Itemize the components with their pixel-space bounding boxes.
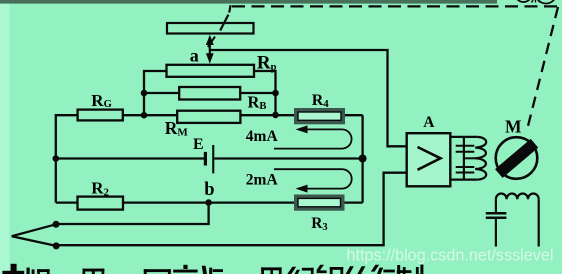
transformer tick 4 bbox=[456, 172, 475, 174]
wire inductor right down bbox=[538, 199, 540, 246]
resistor R4 inner body bbox=[298, 112, 341, 120]
resistor R3 inner body bbox=[298, 198, 341, 206]
wire R3 right lead bbox=[345, 201, 363, 203]
transformer winding lobes bbox=[475, 137, 486, 180]
right rail vertical R4-R3 bbox=[361, 115, 363, 202]
bottom cropped title glyph 量 bbox=[83, 269, 105, 274]
wiper arrowhead down bbox=[206, 53, 214, 63]
amplifier symbol > bbox=[418, 147, 441, 170]
node dot right rail upper bbox=[272, 90, 279, 97]
wire b branch down-left bbox=[56, 203, 209, 224]
node dot right rail lower bbox=[272, 112, 279, 119]
resistor RB bbox=[179, 87, 240, 100]
node dot mid right rail bbox=[359, 155, 367, 163]
cut-off logo circle 2 (top right) bbox=[536, 0, 557, 4]
top dark bar bbox=[0, 0, 497, 4]
bottom cropped title glyph 绘 bbox=[371, 265, 395, 274]
top callout box (wiper track) bbox=[167, 23, 254, 34]
cut-off logo circle 1 (top right) bbox=[515, 0, 532, 2]
resistor RM bbox=[177, 111, 240, 123]
bottom cropped title glyph 纪 bbox=[287, 267, 313, 274]
svg-text:4mA: 4mA bbox=[246, 128, 279, 145]
wire E row left bbox=[56, 157, 204, 159]
switch arrow upper blade bbox=[12, 224, 56, 236]
node dot E row bbox=[53, 155, 60, 162]
callout dashed diagonal to motor bbox=[527, 7, 559, 132]
wire RB left link bbox=[144, 92, 179, 94]
node dot switch top bbox=[53, 221, 60, 228]
bottom cropped title glyph 制 bbox=[397, 265, 424, 274]
transformer top lead bbox=[450, 136, 477, 138]
wire R4 right lead bbox=[345, 114, 363, 116]
transformer spine bbox=[463, 137, 465, 180]
wire RM row bbox=[123, 114, 177, 116]
wire R2 row bbox=[56, 201, 78, 203]
node dot switch bottom bbox=[53, 242, 60, 249]
wire wiper to amplifier input 1 bbox=[211, 50, 408, 146]
wire Rp left to left rail bbox=[144, 71, 167, 115]
resistor RG bbox=[78, 110, 123, 121]
resistor R3 outer frame bbox=[294, 195, 345, 211]
wire E row right bbox=[214, 157, 362, 159]
transformer tick 3 bbox=[456, 166, 475, 168]
svg-text:b: b bbox=[204, 180, 214, 200]
switch arrow lower blade bbox=[12, 236, 57, 246]
wire RM right to R4 bbox=[240, 114, 294, 116]
cut-off logo rays bbox=[532, 0, 540, 3]
svg-text:https://blog.csdn.net/ssslevel: https://blog.csdn.net/ssslevel bbox=[347, 246, 554, 264]
resistor Rp bbox=[167, 65, 255, 77]
bottom cropped title glyph 用 bbox=[261, 267, 281, 274]
transformer tick 1 bbox=[456, 145, 475, 147]
current loop arrow 4mA bbox=[274, 129, 352, 148]
wire capacitor down bbox=[495, 218, 497, 247]
bottom cropped title glyph 文 bbox=[173, 265, 197, 273]
wire bottom rail to amplifier input 2 bbox=[56, 173, 407, 246]
current loop arrow 2mA bbox=[274, 169, 352, 188]
resistor R4 outer frame bbox=[294, 108, 345, 124]
transformer bottom lead bbox=[450, 179, 477, 181]
motor M circle bbox=[496, 137, 538, 179]
capacitor C top plate bbox=[486, 212, 507, 215]
wire RB right link bbox=[240, 92, 275, 94]
bottom cropped title glyph 阻 bbox=[27, 268, 50, 274]
svg-text:E: E bbox=[193, 136, 204, 153]
wire Rp right to right rail bbox=[254, 71, 276, 115]
node dot left rail upper bbox=[141, 90, 148, 97]
wiper double arrow shaft bbox=[209, 41, 211, 57]
amplifier U1 box bbox=[407, 133, 451, 186]
capacitor C bottom plate bbox=[486, 216, 507, 219]
node b dot bbox=[205, 199, 212, 206]
wire RG left and left vertical rail bbox=[56, 115, 78, 202]
callout dashed horizontal line bbox=[232, 5, 557, 7]
battery E negative plate bbox=[204, 152, 207, 166]
transformer tick 2 bbox=[456, 151, 475, 153]
svg-text:2mA: 2mA bbox=[246, 171, 279, 188]
bottom cropped title glyph 图 bbox=[144, 269, 171, 274]
wiper arrowhead up bbox=[206, 35, 214, 45]
bottom cropped title glyph 值 bbox=[202, 266, 223, 274]
svg-text:a: a bbox=[190, 45, 199, 65]
wire R2 to R3 row bbox=[123, 201, 295, 203]
callout solid diagonal through top box bbox=[220, 15, 228, 31]
transformer middle tap bbox=[464, 157, 477, 159]
wiper tick stroke bbox=[208, 37, 215, 47]
svg-text:M: M bbox=[505, 116, 522, 136]
wire inductor left down bbox=[495, 199, 497, 212]
arrowhead 4mA bbox=[296, 125, 308, 133]
resistor R2 bbox=[78, 197, 124, 210]
node dot left rail lower bbox=[141, 112, 148, 119]
callout dash corner bbox=[229, 5, 230, 12]
arrowhead 2mA bbox=[296, 185, 308, 193]
motor M rotor band bbox=[499, 143, 535, 173]
battery E positive plate bbox=[212, 145, 214, 173]
inductor L bumps bbox=[496, 194, 539, 200]
svg-text:A: A bbox=[423, 114, 435, 131]
bottom cropped title glyph 中 bbox=[2, 264, 24, 274]
bottom cropped title glyph 的 bbox=[346, 266, 366, 274]
bottom cropped title glyph 铜 bbox=[316, 265, 343, 274]
background left light strip bbox=[0, 0, 10, 274]
